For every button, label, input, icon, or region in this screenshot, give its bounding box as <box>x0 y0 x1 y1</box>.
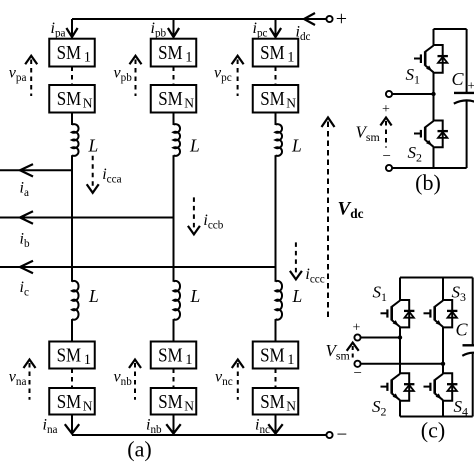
svg-text:SM: SM <box>158 345 183 367</box>
svg-text:+: + <box>336 8 347 30</box>
svg-text:SM: SM <box>57 88 81 110</box>
svg-text:L: L <box>88 286 99 306</box>
svg-text:(a): (a) <box>127 437 151 462</box>
svg-text:1: 1 <box>287 50 294 66</box>
svg-text:1: 1 <box>84 50 91 66</box>
svg-text:N: N <box>184 96 194 111</box>
svg-text:L: L <box>190 286 201 306</box>
svg-text:SM: SM <box>57 42 82 64</box>
svg-text:SM: SM <box>57 345 82 367</box>
svg-text:C: C <box>456 320 469 340</box>
svg-text:−: − <box>383 149 391 165</box>
svg-text:C: C <box>452 69 465 89</box>
svg-text:SM: SM <box>57 391 81 413</box>
svg-text:L: L <box>189 136 200 156</box>
svg-text:(b): (b) <box>415 170 441 195</box>
svg-text:(c): (c) <box>421 418 445 443</box>
svg-text:N: N <box>83 398 93 413</box>
svg-text:SM: SM <box>158 88 183 110</box>
svg-text:N: N <box>83 96 93 111</box>
svg-text:SM: SM <box>260 88 285 110</box>
svg-text:L: L <box>292 286 303 306</box>
svg-text:−: − <box>337 425 348 446</box>
svg-text:SM: SM <box>158 42 183 64</box>
svg-text:N: N <box>184 398 194 413</box>
svg-text:SM: SM <box>260 42 285 64</box>
svg-text:−: − <box>354 366 362 382</box>
svg-text:L: L <box>88 136 99 156</box>
svg-text:SM: SM <box>260 345 285 367</box>
svg-text:1: 1 <box>287 352 294 368</box>
svg-text:N: N <box>286 398 296 413</box>
svg-text:1: 1 <box>185 50 192 66</box>
svg-text:+: + <box>468 78 474 93</box>
svg-text:+: + <box>382 102 390 117</box>
svg-text:SM: SM <box>260 391 285 413</box>
svg-text:L: L <box>291 136 302 156</box>
svg-text:N: N <box>286 96 296 111</box>
svg-text:SM: SM <box>158 391 183 413</box>
svg-text:+: + <box>353 321 361 336</box>
svg-text:1: 1 <box>185 352 192 368</box>
svg-text:1: 1 <box>84 352 91 368</box>
